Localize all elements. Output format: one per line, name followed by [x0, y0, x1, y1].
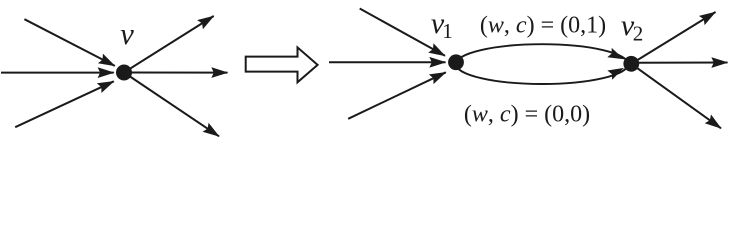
svg-text:(w, c) = (0,0): (w, c) = (0,0)	[464, 102, 590, 128]
svg-text:2: 2	[633, 22, 644, 46]
svg-text:v: v	[120, 17, 134, 51]
svg-text:(w, c) = (0,1): (w, c) = (0,1)	[480, 13, 606, 39]
svg-text:1: 1	[442, 19, 453, 43]
